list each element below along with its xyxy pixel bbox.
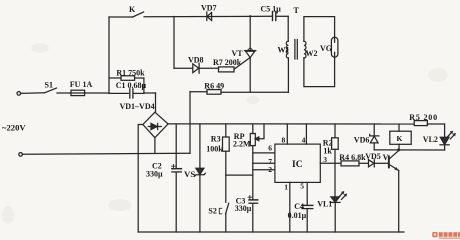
svg-text:8: 8 [282,136,286,145]
svg-text:VD5: VD5 [365,152,381,161]
svg-text:6: 6 [268,144,272,153]
svg-text:R4 6.8k: R4 6.8k [339,153,366,162]
svg-text:VL2: VL2 [423,135,438,144]
svg-text:T: T [294,6,300,15]
svg-text:W2: W2 [306,49,318,58]
svg-text:VD6: VD6 [354,135,370,144]
svg-text:VD8: VD8 [188,55,204,64]
svg-text:VS: VS [184,169,195,179]
svg-text:4: 4 [302,136,306,145]
svg-text:3: 3 [323,155,327,164]
svg-text:0.01μ: 0.01μ [288,211,307,220]
svg-text:330μ: 330μ [146,170,163,179]
svg-text:R6 49: R6 49 [204,81,224,90]
svg-text:2.2M: 2.2M [233,139,251,148]
svg-text:IC: IC [292,160,303,170]
svg-text:S2: S2 [208,207,216,216]
svg-text:C1 0.68μ: C1 0.68μ [116,81,147,90]
svg-text:100k: 100k [206,144,223,153]
svg-text:W1: W1 [278,46,290,55]
svg-text:VD1–VD4: VD1–VD4 [120,102,155,111]
svg-text:VD7: VD7 [201,4,217,13]
svg-text:V: V [383,153,389,162]
svg-text:K: K [129,5,136,14]
svg-text:5: 5 [300,181,304,190]
svg-text:R3: R3 [211,135,221,144]
svg-text:VT: VT [232,49,244,58]
svg-text:~220V: ~220V [2,123,26,133]
svg-text:2: 2 [268,165,272,174]
svg-text:VL1: VL1 [317,200,332,209]
svg-text:330μ: 330μ [235,204,252,213]
svg-text:C5 1μ: C5 1μ [261,5,282,14]
svg-text:K: K [397,134,403,143]
svg-text:VG: VG [320,44,332,53]
svg-text:R5 200: R5 200 [409,113,438,122]
svg-text:C4: C4 [294,202,304,211]
svg-text:R1 750k: R1 750k [116,68,145,77]
svg-text:R7 200k: R7 200k [213,58,242,67]
svg-text:FU 1A: FU 1A [70,80,93,89]
svg-text:1: 1 [284,183,288,192]
svg-text:S1: S1 [45,81,53,90]
